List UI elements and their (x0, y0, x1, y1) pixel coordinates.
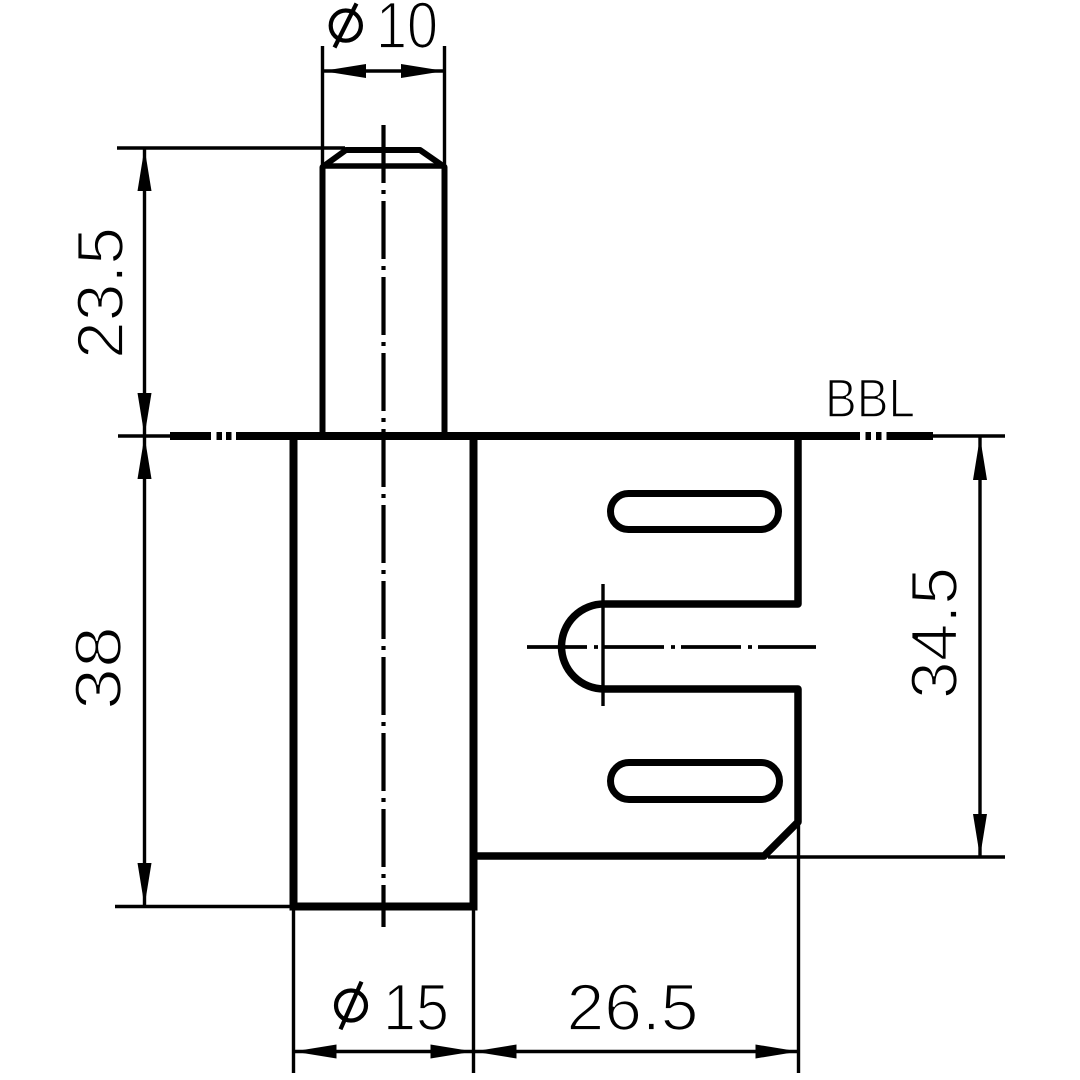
cylinder Ø15 outline (294, 436, 474, 907)
lower slot (611, 763, 780, 800)
23.5 bottom arrow (138, 393, 152, 436)
dim 38 extension bottom (115, 905, 294, 908)
svg-text:26.5: 26.5 (567, 970, 699, 1044)
notch centerline horizontal (527, 645, 816, 649)
dim 23.5 line (143, 148, 146, 436)
upper slot (611, 494, 779, 530)
Ø15 right arrow (431, 1045, 474, 1059)
pin Ø10 outline (323, 150, 445, 436)
svg-text:BBL: BBL (825, 367, 915, 429)
pin/cylinder centerline (381, 125, 385, 927)
dim 23.5 extension top (117, 146, 345, 149)
dim Ø10 line (323, 69, 445, 72)
label Ø10 diameter symbol (331, 4, 361, 48)
svg-text:38: 38 (61, 626, 135, 710)
34.5 top arrow (973, 437, 987, 480)
svg-text:15: 15 (383, 970, 449, 1044)
arrowheads (138, 64, 988, 1059)
34.5 bottom arrow (973, 814, 987, 857)
38 bottom arrow (138, 863, 152, 906)
dim bottom extensions (292, 908, 295, 1073)
26.5 right arrow (756, 1045, 799, 1059)
38 top arrow (138, 436, 152, 479)
svg-text:23.5: 23.5 (63, 227, 137, 359)
Ø10 right arrow (401, 64, 445, 78)
notch crosshair vertical (601, 584, 604, 706)
dim 38 line (143, 436, 146, 906)
frame plate outline (474, 436, 799, 856)
label Ø15 diameter symbol (336, 982, 366, 1030)
BBL datum line (118, 434, 1005, 437)
23.5 top arrow (138, 148, 152, 191)
Ø10 left arrow (323, 64, 367, 78)
Ø15 left arrow (294, 1045, 337, 1059)
dim Ø10 extensions (321, 46, 324, 165)
svg-text:34.5: 34.5 (897, 567, 971, 699)
pin chamfer base edge (324, 163, 443, 169)
26.5 left arrow (474, 1045, 517, 1059)
dim 34.5 line (978, 437, 981, 857)
svg-text:10: 10 (376, 0, 438, 62)
dim 34.5 extension (768, 855, 1005, 858)
dim bottom line (294, 1050, 799, 1053)
